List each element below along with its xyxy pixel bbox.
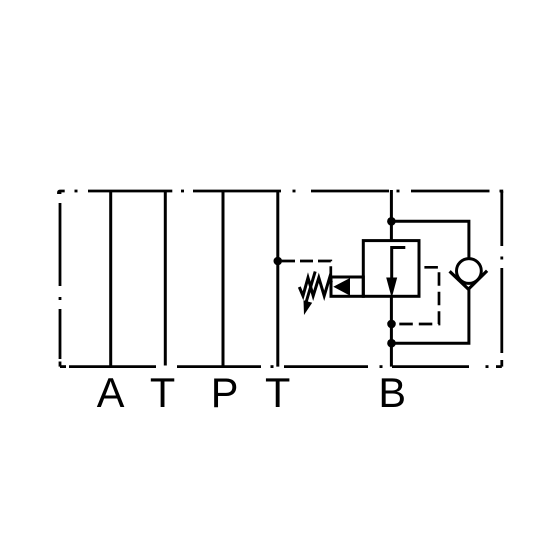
wire from node B1 to check valve top: [391, 221, 469, 258]
wire from check valve bottom to node B3: [392, 288, 469, 343]
svg-text:T: T: [150, 369, 175, 416]
node T2 (junction dot): [274, 257, 283, 266]
relief valve internal flow path: [392, 248, 406, 282]
spring (zigzag): [299, 278, 331, 296]
housing outline left (chain line): [59, 191, 62, 367]
relief valve body U1: [363, 241, 419, 297]
pilot piston (black triangle): [333, 278, 350, 296]
adjustment arrowhead: [304, 300, 313, 315]
port line B lower segment (wire): [390, 296, 393, 366]
port line B upper segment (wire): [390, 190, 393, 241]
relief valve flow arrowhead: [386, 278, 397, 299]
spring chamber box: [331, 277, 363, 296]
node B2 (junction dot): [387, 320, 396, 329]
port line A (wire): [109, 190, 112, 367]
housing outline right (chain line): [500, 191, 503, 367]
housing outline bottom (chain line): [60, 365, 502, 368]
node B1 (junction dot): [387, 217, 396, 226]
svg-text:T: T: [265, 369, 290, 416]
check valve seat (V): [450, 271, 488, 290]
port line P (wire): [222, 190, 225, 367]
drain pilot line (dashed) from valve to B node: [396, 267, 439, 324]
housing outline top (chain line): [59, 191, 502, 194]
pilot line (dashed) from T node to spring chamber: [282, 261, 331, 277]
adjustment arrow shaft: [306, 272, 315, 302]
svg-text:A: A: [97, 369, 125, 416]
svg-text:B: B: [378, 369, 406, 416]
port line T2 (wire): [276, 190, 279, 367]
check valve ball (circle): [457, 259, 482, 284]
svg-text:P: P: [211, 369, 239, 416]
node B3 (junction dot): [387, 339, 396, 348]
port line T (wire): [164, 190, 167, 366]
